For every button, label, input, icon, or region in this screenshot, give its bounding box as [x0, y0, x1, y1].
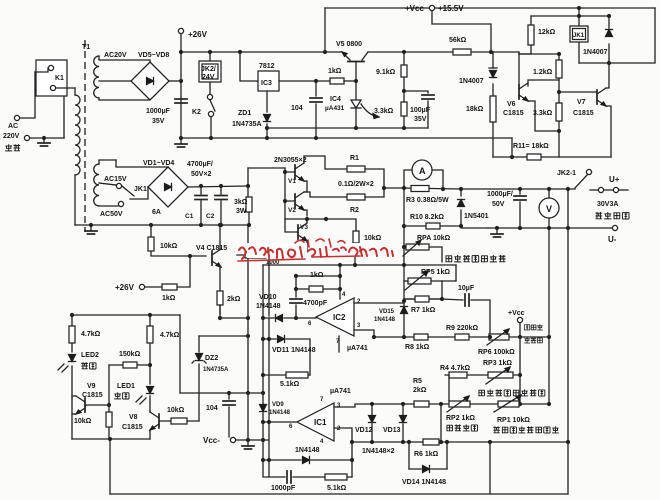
svg-text:3.3kΩ: 3.3kΩ — [533, 110, 553, 117]
svg-text:104: 104 — [206, 405, 218, 412]
svg-text:IC3: IC3 — [261, 80, 272, 87]
svg-text:1N4148: 1N4148 — [256, 303, 281, 310]
svg-text:1kΩ: 1kΩ — [162, 295, 176, 302]
svg-text:R6 1kΩ: R6 1kΩ — [414, 451, 439, 458]
svg-text:1N4007: 1N4007 — [583, 49, 608, 56]
svg-text:56kΩ: 56kΩ — [449, 37, 467, 44]
svg-text:10kΩ: 10kΩ — [74, 418, 92, 425]
svg-text:3kΩ: 3kΩ — [234, 199, 248, 206]
svg-text:1N4007: 1N4007 — [459, 78, 484, 85]
svg-text:50V: 50V — [492, 201, 505, 208]
svg-text:220V: 220V — [3, 133, 20, 140]
svg-text:3.3kΩ: 3.3kΩ — [374, 108, 394, 115]
svg-text:LED2: LED2 — [81, 352, 99, 359]
svg-text:RP3 1kΩ: RP3 1kΩ — [483, 360, 512, 367]
svg-text:7812: 7812 — [259, 63, 275, 70]
svg-text:JK2/: JK2/ — [201, 66, 216, 73]
svg-text:K2: K2 — [192, 109, 201, 116]
svg-text:10kΩ: 10kΩ — [160, 243, 178, 250]
svg-text:10kΩ: 10kΩ — [364, 235, 382, 242]
svg-text:30V3A: 30V3A — [597, 201, 618, 208]
svg-text:V7: V7 — [577, 99, 586, 106]
svg-text:µA741: µA741 — [330, 388, 351, 395]
svg-text:V6: V6 — [507, 101, 516, 108]
svg-text:C2: C2 — [206, 213, 215, 220]
svg-text:JK1: JK1 — [134, 186, 147, 193]
svg-text:1000µF/: 1000µF/ — [487, 191, 513, 198]
svg-text:4.7kΩ: 4.7kΩ — [81, 331, 101, 338]
svg-text:1N5401: 1N5401 — [464, 213, 489, 220]
svg-text:18kΩ: 18kΩ — [466, 106, 484, 113]
svg-text:C1815: C1815 — [503, 110, 524, 117]
svg-text:IC1: IC1 — [314, 418, 327, 427]
svg-text:R10 8.2kΩ: R10 8.2kΩ — [410, 214, 444, 221]
svg-text:+Vcc: +Vcc — [405, 4, 424, 13]
svg-text:R7 1kΩ: R7 1kΩ — [411, 307, 436, 314]
svg-text:RP1 10kΩ: RP1 10kΩ — [497, 417, 530, 424]
svg-text:RPA 10kΩ: RPA 10kΩ — [417, 235, 451, 242]
svg-text:DZ2: DZ2 — [205, 355, 218, 362]
svg-text:VD11 1N4148: VD11 1N4148 — [272, 347, 316, 354]
svg-text:V9: V9 — [87, 383, 96, 390]
svg-text:R9 220kΩ: R9 220kΩ — [446, 325, 478, 332]
svg-text:VD10: VD10 — [259, 294, 277, 301]
svg-text:VD9: VD9 — [272, 402, 284, 408]
svg-text:JK2-1: JK2-1 — [557, 170, 576, 177]
svg-text:1N4148: 1N4148 — [295, 447, 320, 454]
svg-text:1N4148×2: 1N4148×2 — [362, 448, 395, 455]
svg-text:35V: 35V — [414, 116, 427, 123]
svg-text:VD13: VD13 — [383, 427, 401, 434]
svg-text:U-: U- — [608, 235, 617, 244]
svg-text:100µF: 100µF — [410, 107, 431, 114]
svg-text:+26V: +26V — [115, 283, 135, 292]
svg-text:LED1: LED1 — [117, 383, 135, 390]
svg-text:U+: U+ — [609, 175, 620, 184]
svg-text:VD14 1N4148: VD14 1N4148 — [402, 479, 446, 486]
svg-text:R3 0.38Ω/5W: R3 0.38Ω/5W — [406, 197, 449, 204]
svg-text:AC50V: AC50V — [100, 211, 123, 218]
svg-text:V3: V3 — [300, 224, 308, 231]
svg-text:1000µF: 1000µF — [146, 108, 171, 115]
svg-text:1kΩ: 1kΩ — [328, 68, 342, 75]
svg-text:1N4735A: 1N4735A — [232, 121, 262, 128]
svg-text:4700pF: 4700pF — [303, 300, 328, 307]
svg-text:K1: K1 — [55, 75, 64, 82]
svg-text:AC: AC — [8, 123, 18, 130]
svg-text:2N3055×2: 2N3055×2 — [274, 157, 307, 164]
svg-text:VD12: VD12 — [355, 427, 373, 434]
svg-text:3W: 3W — [236, 208, 247, 215]
svg-text:C1815: C1815 — [122, 424, 143, 431]
svg-text:JK1: JK1 — [573, 33, 585, 39]
svg-text:Vcc-: Vcc- — [203, 436, 220, 445]
svg-text:R2: R2 — [350, 207, 359, 214]
svg-text:150kΩ: 150kΩ — [119, 351, 141, 358]
svg-text:R8 1kΩ: R8 1kΩ — [405, 344, 430, 351]
svg-text:5.1kΩ: 5.1kΩ — [327, 485, 347, 492]
svg-text:9.1kΩ: 9.1kΩ — [376, 69, 396, 76]
svg-text:+Vcc: +Vcc — [508, 310, 525, 317]
svg-text:1.2kΩ: 1.2kΩ — [533, 69, 553, 76]
svg-text:+15.5V: +15.5V — [438, 4, 464, 13]
svg-text:4700µF/: 4700µF/ — [187, 161, 213, 168]
svg-text:IC2: IC2 — [333, 313, 346, 322]
svg-text:35V: 35V — [152, 118, 165, 125]
svg-text:VD1~VD4: VD1~VD4 — [143, 160, 174, 167]
svg-text:µA741: µA741 — [347, 345, 368, 352]
svg-text:R11= 18kΩ: R11= 18kΩ — [513, 143, 549, 150]
svg-text:50V×2: 50V×2 — [191, 171, 212, 178]
svg-text:+26V: +26V — [188, 30, 208, 39]
svg-text:0.1Ω/2W×2: 0.1Ω/2W×2 — [338, 181, 374, 188]
svg-text:V2: V2 — [288, 207, 296, 214]
svg-text:2kΩ: 2kΩ — [413, 387, 427, 394]
svg-text:A: A — [419, 166, 426, 176]
svg-text:IC4: IC4 — [330, 96, 341, 103]
svg-text:R1: R1 — [350, 155, 359, 162]
svg-text:5.1kΩ: 5.1kΩ — [280, 381, 300, 388]
svg-text:12kΩ: 12kΩ — [538, 29, 556, 36]
svg-text:VD15: VD15 — [379, 309, 395, 315]
svg-text:10kΩ: 10kΩ — [167, 407, 185, 414]
svg-text:1N4735A: 1N4735A — [203, 367, 229, 373]
svg-text:6A: 6A — [152, 209, 161, 216]
svg-text:AC15V: AC15V — [104, 176, 127, 183]
svg-text:1000pF: 1000pF — [271, 485, 296, 492]
svg-text:10µF: 10µF — [458, 285, 475, 292]
svg-text:24V: 24V — [202, 74, 215, 81]
svg-text:104: 104 — [291, 105, 303, 112]
svg-text:V1: V1 — [288, 178, 296, 185]
svg-text:4.7kΩ: 4.7kΩ — [160, 332, 180, 339]
svg-text:R5: R5 — [413, 378, 422, 385]
svg-text:1N4148: 1N4148 — [374, 317, 396, 323]
svg-text:C1815: C1815 — [573, 110, 594, 117]
svg-text:V8: V8 — [129, 414, 138, 421]
svg-text:ZD1: ZD1 — [238, 110, 251, 117]
svg-text:V5 0800: V5 0800 — [336, 41, 362, 48]
svg-text:RP5 1kΩ: RP5 1kΩ — [421, 269, 450, 276]
svg-text:V: V — [546, 204, 552, 214]
svg-text:2kΩ: 2kΩ — [227, 296, 241, 303]
svg-text:AC20V: AC20V — [104, 52, 127, 59]
svg-text:C1: C1 — [185, 213, 194, 220]
svg-text:RP6 100kΩ: RP6 100kΩ — [478, 349, 515, 356]
svg-text:T1: T1 — [82, 44, 90, 51]
svg-text:R4 4.7kΩ: R4 4.7kΩ — [440, 365, 471, 372]
svg-text:1N4148: 1N4148 — [269, 410, 291, 416]
svg-text:µA431: µA431 — [325, 105, 345, 112]
svg-text:VD5~VD8: VD5~VD8 — [138, 52, 169, 59]
svg-text:RP2 1kΩ: RP2 1kΩ — [446, 415, 475, 422]
